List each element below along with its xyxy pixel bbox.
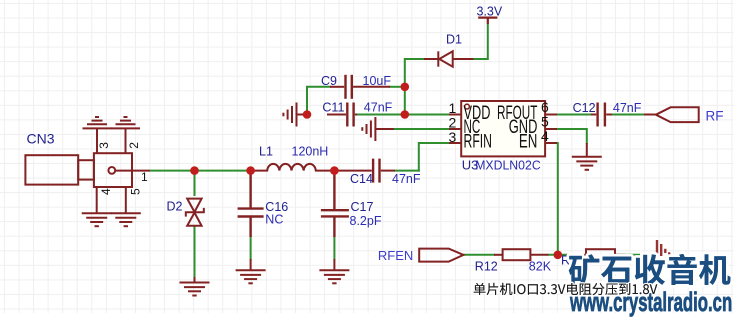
ground at U1 pin5 xyxy=(586,143,588,157)
U3 pin 1 lead xyxy=(449,114,461,116)
wire RFEN port to R12 xyxy=(463,254,495,256)
U3 pin 3 lead xyxy=(449,142,461,144)
connector CN3 body xyxy=(25,153,132,187)
wire U1 pin5 to ground xyxy=(556,129,587,144)
watermark www.crystalradio.cn xyxy=(570,289,732,316)
ground at CN3 pin 4 xyxy=(82,213,112,226)
U3 pin 5 lead xyxy=(545,128,557,130)
resistor R13 xyxy=(579,249,626,260)
wire U1 pin6 to C12 xyxy=(556,114,591,116)
U3 pin 6 lead xyxy=(545,114,557,116)
node D junction EN divider xyxy=(554,251,563,260)
CN3 pin 3 xyxy=(96,128,98,153)
wire C14 node to U1 pin3 xyxy=(419,143,450,172)
wire node A to D2 xyxy=(194,171,196,196)
diode D1 xyxy=(424,51,474,66)
node junction C17-L1 xyxy=(330,166,339,175)
diode D2 top half xyxy=(187,199,201,212)
annotation text 单片机IO口3.3V电阻分压到1.8V xyxy=(474,283,658,295)
wire after R13 xyxy=(614,254,640,256)
node junction C11 right xyxy=(401,110,410,119)
U3 pin 4 lead xyxy=(545,142,557,144)
watermark text 矿石收音机 xyxy=(569,254,731,285)
resistor R12 xyxy=(494,249,548,260)
U3 pin 2 lead xyxy=(449,128,461,130)
wire R12 to node D xyxy=(548,254,579,256)
ground at CN3 pin 5 xyxy=(111,213,141,226)
diode D2 zener bar xyxy=(186,208,204,217)
wire C12 to RF port xyxy=(612,114,645,116)
node B junction C9-C11 left xyxy=(303,110,312,119)
port RF xyxy=(656,107,699,122)
node junction C16 xyxy=(246,166,255,175)
inductor L1 xyxy=(251,164,335,171)
capacitor C14 xyxy=(334,159,395,183)
wire node B to C9 xyxy=(306,86,331,88)
wire ground to U1 pin2 xyxy=(393,128,450,130)
CN3 pin 1 xyxy=(115,170,150,172)
power port 3.3V xyxy=(478,18,497,24)
CN3 pin 5 xyxy=(125,187,127,213)
wire CN3 pin1 to L1 node xyxy=(150,170,252,172)
wire C16 to ground xyxy=(250,236,252,260)
capacitor C9 xyxy=(330,75,390,99)
wire C11 to U1 pin1 xyxy=(355,114,450,116)
wire node C vertical to D1 xyxy=(405,59,425,115)
ground at D2 xyxy=(194,277,196,283)
capacitor C11 xyxy=(327,103,357,127)
ground at C16 xyxy=(250,259,252,270)
U3 pin1 marker dot xyxy=(465,104,470,109)
node C junction C9 right xyxy=(401,83,410,92)
capacitor C16 xyxy=(238,171,264,237)
wire D2 to ground xyxy=(194,226,196,278)
wire C14 right segment xyxy=(394,170,420,172)
wire U1 pin4 to R divider node xyxy=(556,143,558,255)
wire C17 to ground xyxy=(333,236,335,260)
capacitor C12 xyxy=(591,103,612,127)
capacitor C17 xyxy=(321,171,349,237)
node A junction CN3-D2 xyxy=(190,166,199,175)
ground at CN3 pin 2 xyxy=(111,117,140,128)
ground at CN3 pin 3 xyxy=(83,117,112,128)
CN3 pin 2 xyxy=(125,128,127,153)
ground at C17 xyxy=(333,259,335,270)
ground at C9 C11 left xyxy=(297,114,308,116)
op-amp U3 MXDLN02C body xyxy=(461,101,545,156)
wire node B vertical C9-C11 xyxy=(306,87,308,115)
diode D2 bottom half xyxy=(187,213,201,226)
wire D1 to 3.3V xyxy=(473,24,488,60)
port RFEN xyxy=(419,249,463,262)
wire C9 to node C xyxy=(389,86,405,88)
watermark antenna bars xyxy=(657,240,671,256)
ground at U1 pin2 NC xyxy=(375,128,393,130)
CN3 pin 4 xyxy=(96,187,98,213)
